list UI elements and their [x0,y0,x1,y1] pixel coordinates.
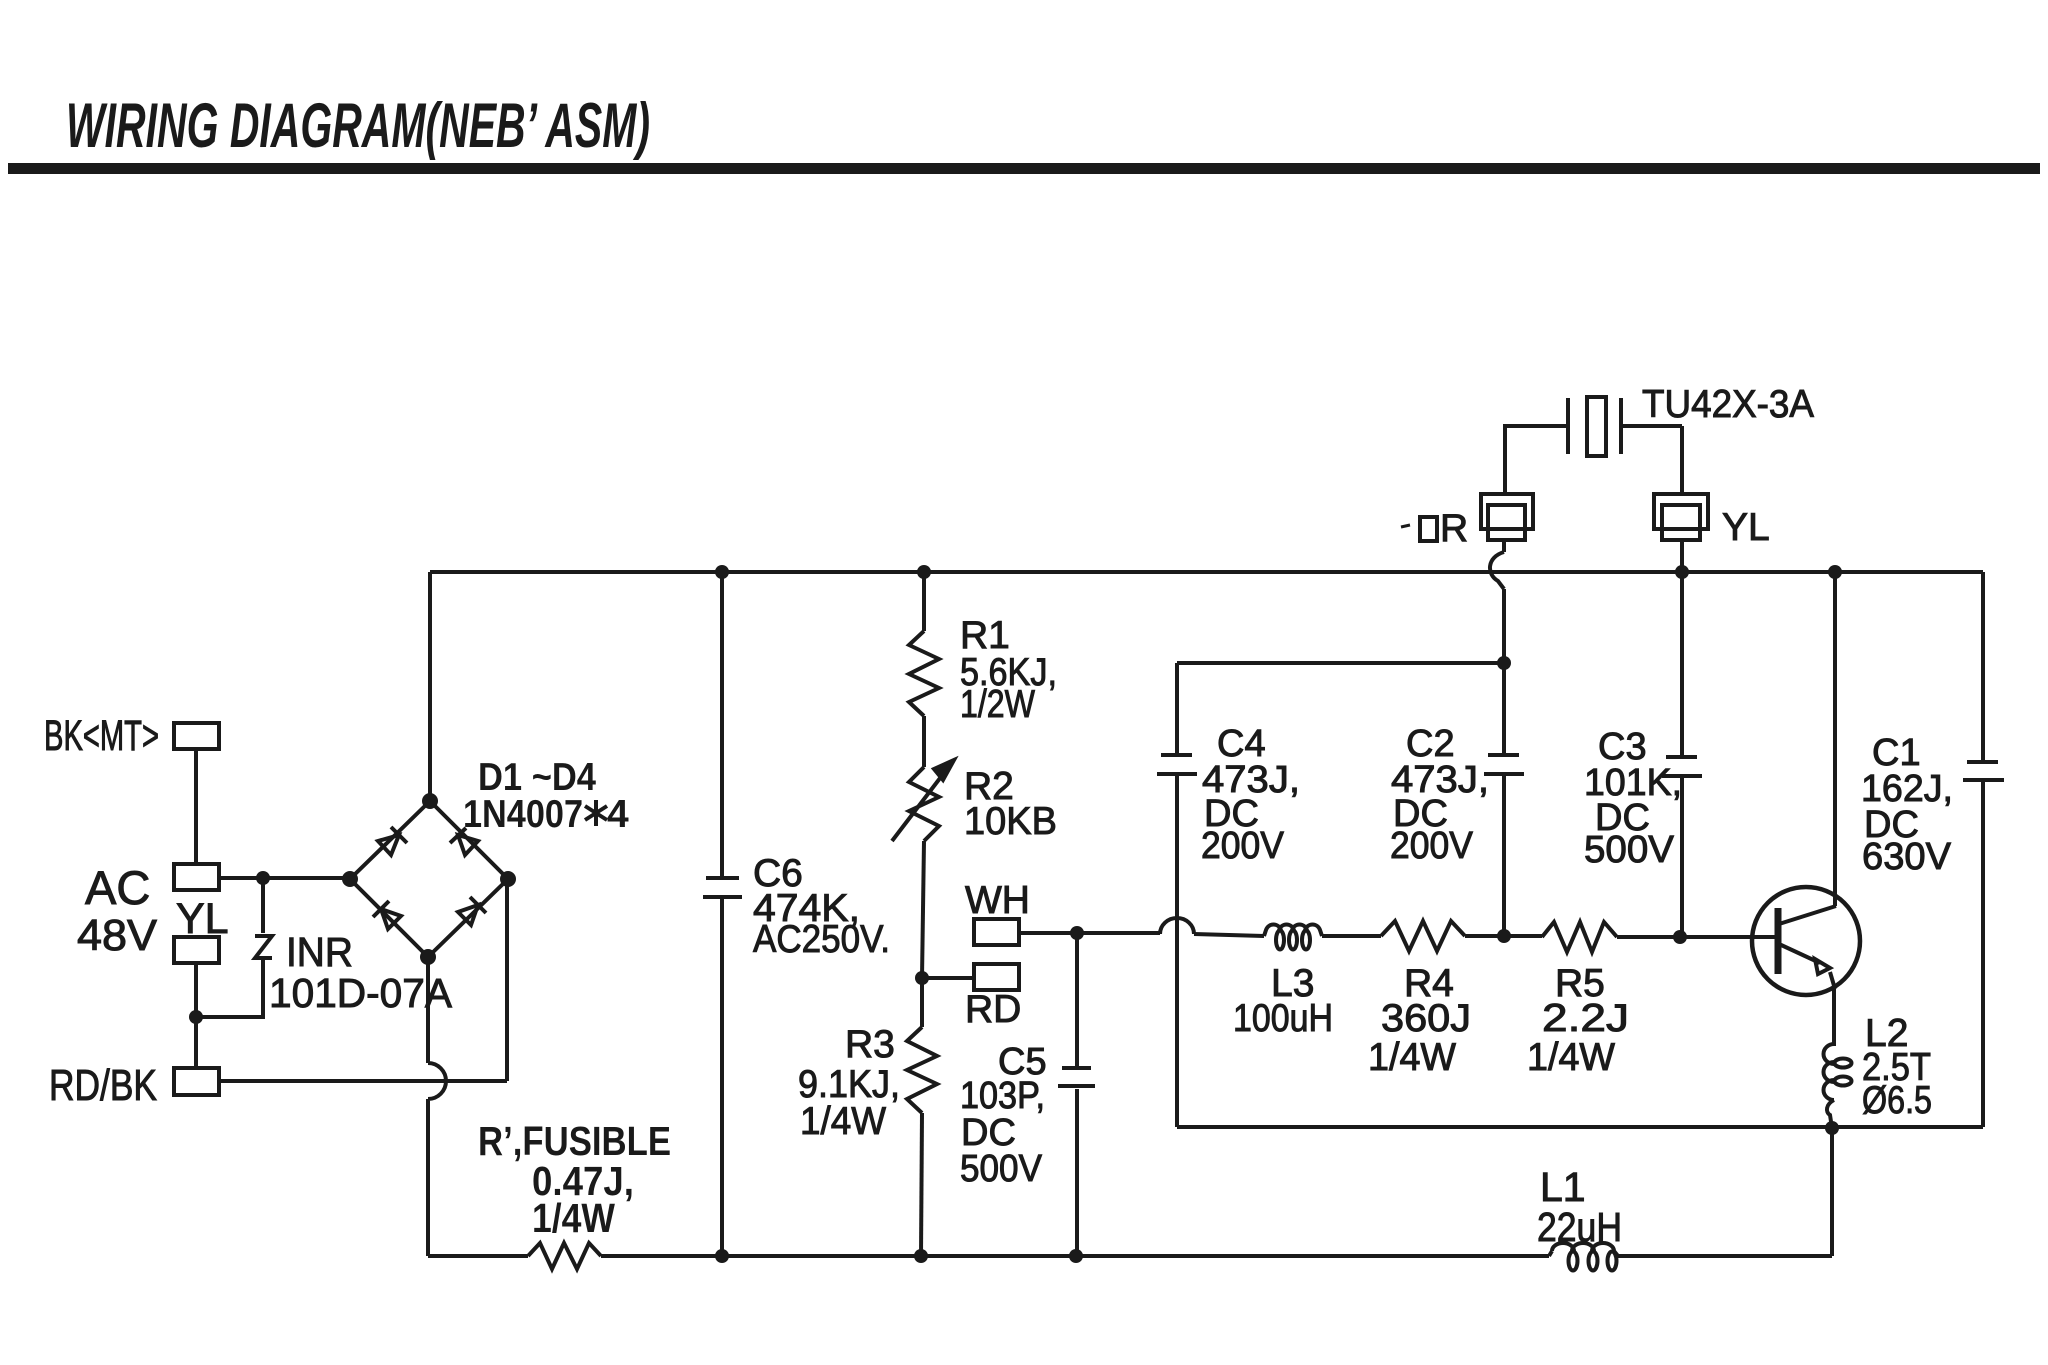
wire hop over C4 line [1160,918,1194,934]
svg-text:INR: INR [286,929,353,975]
wire R4 to R5 [1465,934,1542,938]
svg-text:22uH: 22uH [1537,1204,1622,1250]
wire bridge top vertical [428,572,432,801]
wire R1 to R2 [922,716,926,767]
inductor L3 100uH [1233,924,1333,1040]
potentiometer R2 10KB [892,760,1057,843]
node bridge top [422,793,438,809]
wire BK(MT) to AC [194,749,198,864]
varistor INR 101D-07A [196,878,453,1017]
node bridge left [342,871,358,887]
svg-text:WH: WH [965,879,1030,922]
svg-text:10KB: 10KB [964,800,1057,843]
capacitor C2 473J DC200V [1390,723,1524,936]
capacitor C5 103P DC500V [960,933,1095,1256]
wire bottom rail right [1618,1254,1832,1258]
wire bridge bottom with hop [428,957,446,1256]
svg-text:200V: 200V [1201,825,1285,867]
node rail C6 [715,1249,729,1263]
transformer TU42X-3A [1505,383,1814,494]
node INR junction [189,1010,203,1024]
resistor R' fusible [528,1243,601,1269]
svg-text:AC250V.: AC250V. [753,918,890,961]
wire bridge diamond [350,801,508,957]
title [66,91,650,161]
wire AC to bridge left [219,876,350,880]
wire YL vertical [1680,540,1684,755]
svg-text:1/4W: 1/4W [1527,1036,1615,1079]
label R',FUSIBLE 0.47J, 1/4W [478,1118,671,1241]
svg-text:RD/BK: RD/BK [49,1061,157,1110]
svg-text:4: 4 [607,793,629,836]
resistor R5 2.2J 1/4W [1527,922,1629,1079]
node C3 bottom junction [1673,930,1687,944]
svg-text:AC: AC [85,861,150,914]
svg-text:48V: 48V [77,911,158,960]
inductor L1 22uH [1537,1164,1622,1271]
node bus C6 [715,565,729,579]
capacitor C4 473J DC200V [1157,663,1300,1127]
node C4 link junction [1497,656,1511,670]
resistor R3 9.1KJ 1/4W [798,978,937,1143]
wire C4 top link [1177,661,1504,665]
title underline [8,163,2040,174]
wire bottom rail left [428,1254,528,1258]
wire inner rail [1177,1125,1983,1129]
asterisk of 1N4007*4 [585,800,607,826]
wire hop to L3 [1194,934,1264,936]
svg-text:360J: 360J [1381,997,1471,1040]
node rail R3 [914,1249,928,1263]
wire RD/BK to bridge right [219,879,507,1081]
connector YL lower [174,937,219,963]
node rail C5 [1069,1249,1083,1263]
wire bottom rail middle [601,1254,1549,1258]
connector RD/BK [49,1061,219,1110]
wire RD to junction [922,976,974,980]
wire top bus [430,570,1983,574]
svg-text:2.2J: 2.2J [1542,997,1629,1040]
wire collector to bus [1833,572,1837,906]
node bridge right [500,871,516,887]
diode D3 (bottom-left arm) [373,901,401,929]
svg-text:500V: 500V [960,1148,1043,1190]
node WH junction [1070,926,1084,940]
svg-text:101D-07A: 101D-07A [269,970,453,1016]
wire YL to RD/BK [194,963,198,1068]
wire bus to R1 [922,572,926,631]
svg-text:500V: 500V [1584,829,1675,871]
wire R3 to rail [921,1113,922,1256]
capacitor C3 101K DC500V [1584,726,1702,937]
connector OR [1401,494,1533,550]
wire R2 to RD node [922,841,924,978]
svg-text:1N4007: 1N4007 [463,793,583,836]
node AC junction [256,871,270,885]
connector AC YL [77,861,229,960]
svg-text:TU42X-3A: TU42X-3A [1642,383,1814,426]
svg-text:BK<MT>: BK<MT> [44,712,159,760]
node RD junction [915,971,929,985]
svg-text:WIRING DIAGRAM(NEB’ ASM): WIRING DIAGRAM(NEB’ ASM) [66,91,650,161]
diode D2 (top-right arm) [450,828,478,855]
diode D4 (bottom-right arm) [458,897,486,925]
svg-text:1/2W: 1/2W [960,683,1035,726]
node bus collector [1828,565,1842,579]
node C2 bottom junction [1497,929,1511,943]
wire R5 to base [1617,935,1778,939]
node inner rail L2 [1825,1121,1839,1135]
svg-text:R3: R3 [845,1023,895,1066]
svg-text:YL: YL [1722,506,1770,549]
node bus YL [1675,565,1689,579]
svg-text:630V: 630V [1862,836,1952,878]
diode D1 (top-left arm) [378,827,407,855]
svg-text:1/4W: 1/4W [800,1100,886,1143]
inductor L2 2.5T [1824,1012,1933,1128]
connector RD [965,964,1021,1031]
svg-text:RD: RD [965,988,1021,1031]
node bus R1 [917,565,931,579]
svg-text:Ø6.5: Ø6.5 [1862,1079,1932,1122]
wire OR vertical with S-hop [1490,540,1504,753]
wire emitter to L2 [1832,984,1836,1046]
wire L3 to R4 [1322,934,1381,938]
svg-text:R: R [1440,507,1468,550]
connector WH [965,879,1030,945]
label D1~D4 1N4007*4 [463,756,629,836]
svg-text:1/4W: 1/4W [1368,1036,1456,1079]
connector YL right [1654,494,1770,549]
node bridge bottom [420,949,436,965]
resistor R4 360J 1/4W [1368,921,1471,1079]
svg-text:103P,: 103P, [960,1075,1045,1117]
wire WH to C5 node [1019,931,1160,935]
connector BK(MT) [44,712,219,760]
capacitor C1 162J DC630V [1861,572,2004,1127]
svg-text:200V: 200V [1390,825,1474,867]
transistor Q1 [1752,887,1860,995]
capacitor C6 474K AC250V [703,572,890,1256]
svg-text:1/4W: 1/4W [532,1195,615,1241]
svg-text:100uH: 100uH [1233,997,1333,1040]
resistor R1 5.6KJ 1/2W [909,614,1057,726]
wire L2 to rail [1830,1128,1834,1256]
